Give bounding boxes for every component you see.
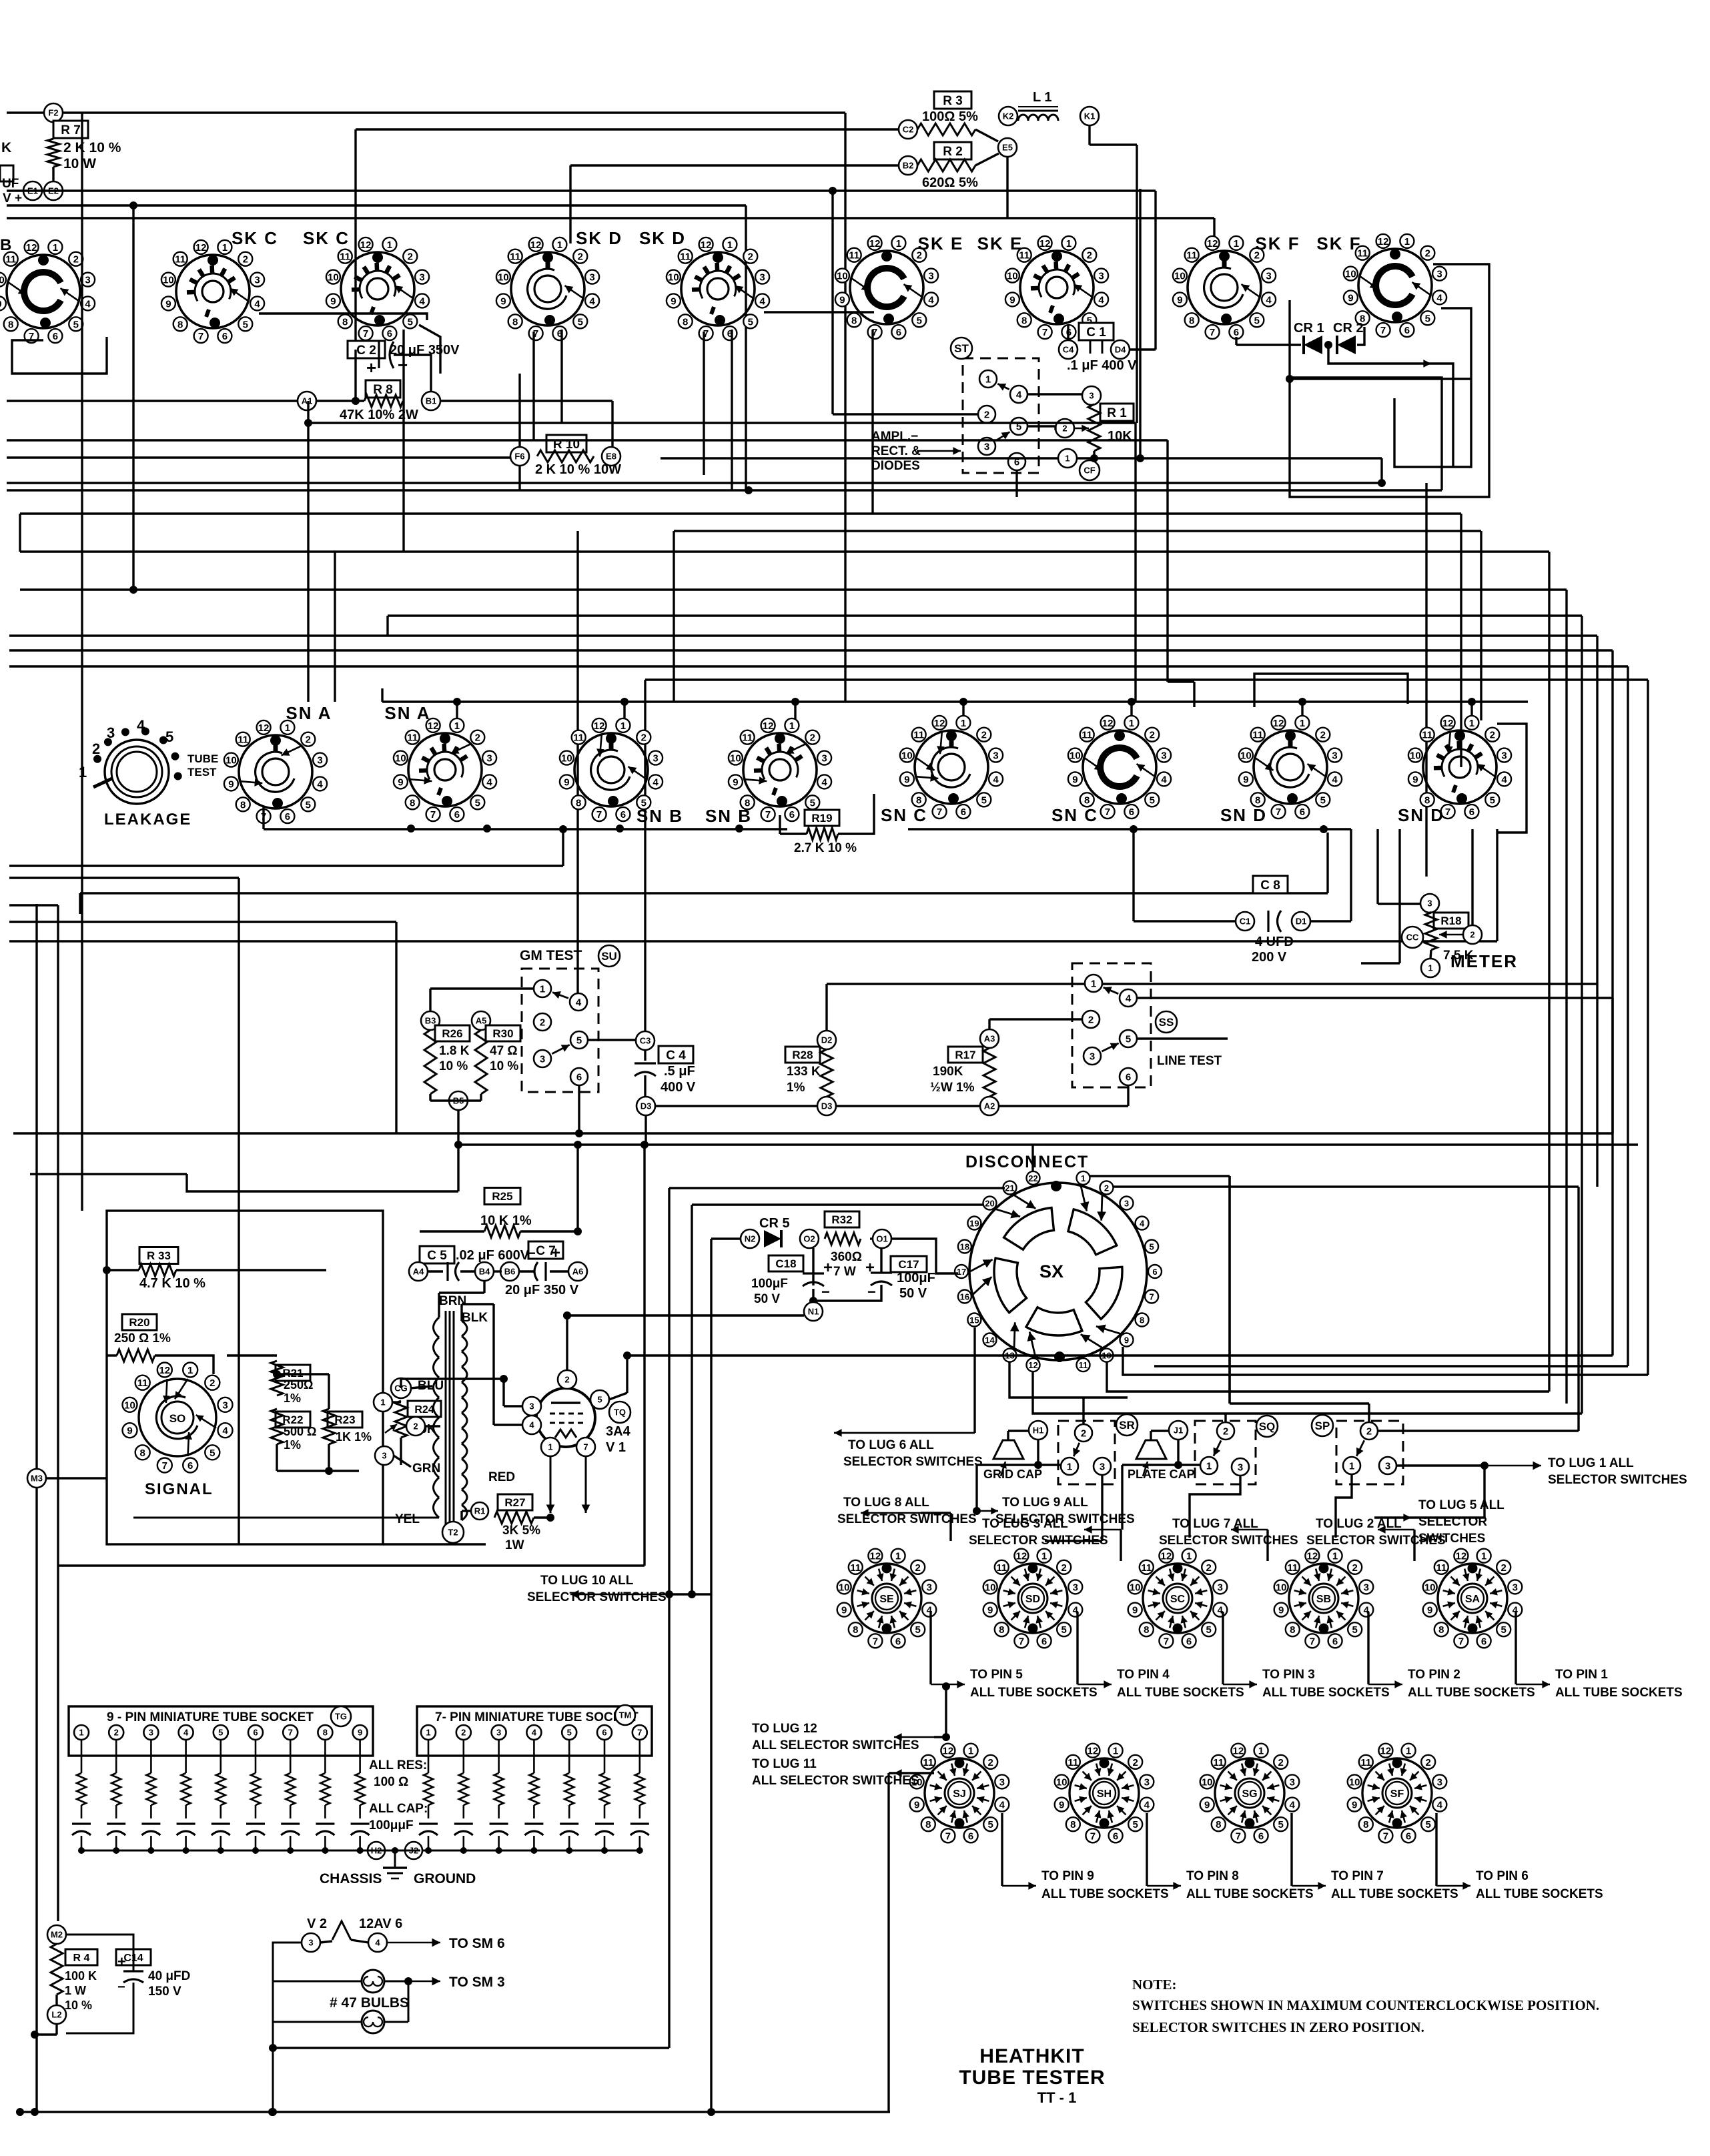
node v1p1	[541, 1438, 560, 1456]
svg-text:1%: 1%	[284, 1392, 301, 1405]
svg-text:9: 9	[1352, 1800, 1357, 1811]
node B1	[422, 392, 440, 410]
wire B2 feed	[570, 165, 899, 243]
resistor R23	[323, 1409, 372, 1444]
svg-text:5: 5	[73, 319, 79, 330]
svg-text:5: 5	[578, 316, 583, 328]
resistor R32	[825, 1211, 862, 1279]
svg-text:SR: SR	[1119, 1419, 1135, 1432]
svg-text:1: 1	[454, 720, 460, 732]
svg-text:10: 10	[1349, 1776, 1360, 1788]
svg-text:−: −	[117, 1980, 125, 1995]
svg-text:12: 12	[1233, 1746, 1244, 1757]
svg-text:SQ: SQ	[1259, 1420, 1276, 1433]
svg-text:O2: O2	[803, 1234, 815, 1244]
wire R10 tails	[520, 374, 753, 494]
svg-text:12: 12	[1161, 1551, 1172, 1562]
label YEL	[395, 1512, 420, 1526]
node N1	[804, 1302, 823, 1321]
svg-text:CC: CC	[1406, 933, 1419, 943]
svg-text:TEST: TEST	[187, 766, 217, 778]
wire sn bottom bus	[264, 807, 787, 833]
svg-text:+: +	[865, 1259, 875, 1277]
wire bottom bus	[16, 2108, 890, 2116]
node C1m	[1236, 912, 1254, 931]
node O2	[800, 1229, 819, 1248]
node B3	[421, 1011, 440, 1030]
svg-text:TT - 1: TT - 1	[1037, 2089, 1077, 2106]
svg-text:GRID CAP: GRID CAP	[983, 1468, 1042, 1481]
wire gm wires	[430, 989, 636, 1144]
svg-text:SN B: SN B	[636, 806, 683, 826]
wire bus y1716	[454, 1141, 1638, 1149]
svg-text:SIGNAL: SIGNAL	[145, 1480, 213, 1498]
svg-text:4: 4	[1098, 294, 1104, 306]
wire bus y827	[20, 550, 1549, 552]
wire bus y884	[20, 588, 1567, 590]
svg-text:7: 7	[1445, 806, 1450, 818]
svg-text:400 V: 400 V	[661, 1080, 696, 1095]
svg-text:10: 10	[1345, 269, 1356, 280]
svg-text:3: 3	[107, 724, 115, 741]
svg-text:12: 12	[763, 720, 774, 732]
svg-text:ALL SELECTOR SWITCHES: ALL SELECTOR SWITCHES	[752, 1774, 919, 1788]
wire bus y770	[20, 514, 1461, 767]
wire SKF2 y568	[1290, 378, 1471, 380]
svg-text:2: 2	[1104, 1183, 1109, 1193]
svg-text:100 K: 100 K	[65, 1969, 97, 1983]
label SIGNAL	[145, 1480, 213, 1498]
svg-text:3K 5%: 3K 5%	[502, 1524, 540, 1538]
svg-text:R 33: R 33	[147, 1249, 171, 1262]
label SK F	[1255, 233, 1300, 253]
svg-text:2: 2	[1320, 730, 1326, 741]
svg-text:ALL TUBE SOCKETS: ALL TUBE SOCKETS	[1262, 1686, 1390, 1700]
switch SU	[522, 945, 620, 1092]
node v2p4	[368, 1933, 387, 1952]
svg-text:4: 4	[759, 296, 765, 307]
wire SKB loop	[12, 337, 107, 374]
tube socket switch SN row #2	[560, 718, 663, 821]
svg-text:5: 5	[567, 1728, 572, 1738]
svg-text:10: 10	[0, 275, 5, 286]
svg-text:R 1: R 1	[1107, 406, 1127, 420]
wire ampl arrow	[917, 447, 961, 455]
svg-text:CF: CF	[1084, 466, 1095, 476]
svg-text:BLK: BLK	[462, 1311, 488, 1325]
svg-text:4: 4	[529, 1420, 534, 1430]
svg-text:5: 5	[1490, 794, 1495, 806]
svg-text:9: 9	[733, 776, 738, 788]
svg-text:11: 11	[1436, 1562, 1446, 1574]
wire rc bus	[81, 1850, 640, 1852]
svg-text:9: 9	[1278, 1605, 1284, 1616]
svg-text:A2: A2	[984, 1101, 995, 1111]
svg-text:2: 2	[1425, 248, 1430, 259]
tube socket switch SK E #5	[835, 236, 938, 339]
wire E5 down	[1006, 157, 1008, 218]
svg-text:SK E: SK E	[977, 233, 1023, 253]
resistor R20	[107, 1314, 213, 1374]
svg-text:10: 10	[226, 755, 237, 766]
svg-text:11: 11	[1422, 730, 1432, 741]
svg-text:2: 2	[564, 1375, 569, 1385]
svg-text:R 7: R 7	[61, 123, 81, 137]
svg-text:4: 4	[1501, 774, 1507, 785]
svg-text:H1: H1	[1033, 1426, 1044, 1436]
svg-text:4: 4	[1140, 1219, 1145, 1229]
svg-text:TG: TG	[335, 1712, 347, 1722]
svg-text:9: 9	[1204, 1800, 1210, 1811]
svg-text:LEAKAGE: LEAKAGE	[104, 811, 191, 829]
svg-text:1W: 1W	[505, 1538, 524, 1552]
svg-text:5: 5	[1061, 1624, 1067, 1636]
label 3A4 V1	[606, 1424, 631, 1455]
svg-text:2: 2	[92, 740, 100, 757]
svg-text:GROUND: GROUND	[414, 1871, 476, 1886]
diode CR5	[764, 1230, 781, 1247]
svg-text:TO PIN 7: TO PIN 7	[1331, 1869, 1384, 1883]
svg-text:.02 μF 600V: .02 μF 600V	[456, 1248, 530, 1263]
svg-text:4: 4	[183, 1728, 189, 1738]
wire c8 right	[1310, 829, 1351, 921]
svg-text:7: 7	[1105, 806, 1110, 818]
svg-text:2: 2	[1206, 1562, 1212, 1574]
ground chassis	[383, 1868, 407, 1878]
svg-text:1: 1	[285, 722, 290, 734]
svg-text:11: 11	[923, 1757, 933, 1768]
svg-text:2: 2	[209, 1378, 215, 1389]
svg-text:V 2: V 2	[307, 1917, 327, 1931]
svg-text:5: 5	[475, 797, 480, 808]
svg-text:R1: R1	[474, 1506, 486, 1516]
svg-text:A1: A1	[302, 396, 313, 406]
svg-text:7: 7	[288, 1728, 293, 1738]
label K fragment	[0, 140, 11, 254]
svg-text:9: 9	[839, 294, 845, 306]
svg-text:6: 6	[387, 328, 392, 340]
svg-text:K2: K2	[1003, 111, 1014, 121]
svg-text:YEL: YEL	[395, 1512, 420, 1526]
svg-text:UF: UF	[2, 177, 19, 191]
svg-text:HEATHKIT: HEATHKIT	[979, 2045, 1084, 2067]
svg-text:2: 2	[540, 1017, 545, 1028]
svg-text:1%: 1%	[284, 1438, 301, 1452]
tube socket switch SN row #1	[394, 718, 496, 821]
svg-text:D3: D3	[821, 1101, 833, 1111]
svg-text:7: 7	[1383, 1830, 1388, 1842]
wire right bundle v0	[1548, 552, 1550, 1392]
wire bus y1382	[9, 922, 396, 1133]
wire socket drops	[404, 330, 873, 552]
svg-text:C18: C18	[775, 1257, 796, 1270]
svg-text:7 W: 7 W	[833, 1265, 856, 1279]
svg-text:SK C: SK C	[232, 228, 278, 248]
svg-text:SELECTOR: SELECTOR	[1418, 1515, 1487, 1529]
svg-text:2: 2	[1087, 250, 1092, 261]
svg-text:TO PIN 5: TO PIN 5	[970, 1668, 1023, 1682]
wire sr feeds	[1084, 1176, 1369, 1424]
svg-text:8: 8	[916, 794, 921, 806]
svg-text:1: 1	[187, 1365, 193, 1376]
svg-text:1 W: 1 W	[65, 1984, 86, 1997]
svg-text:R25: R25	[492, 1190, 512, 1203]
svg-text:2.7 K 10 %: 2.7 K 10 %	[794, 841, 857, 855]
svg-text:10: 10	[163, 275, 174, 286]
svg-text:10 %: 10 %	[65, 1999, 92, 2012]
label SK C	[232, 228, 278, 248]
svg-text:7: 7	[363, 328, 368, 340]
wire m3 line	[46, 1477, 107, 1479]
svg-text:11: 11	[1287, 1562, 1298, 1574]
leakage switch	[79, 717, 218, 804]
svg-text:12: 12	[934, 718, 945, 729]
svg-text:8: 8	[1216, 1819, 1221, 1830]
wire bundle h999	[9, 665, 1628, 667]
svg-text:12: 12	[701, 239, 712, 251]
wire drop x200	[129, 205, 137, 594]
svg-text:10: 10	[498, 272, 509, 284]
svg-text:9: 9	[1412, 774, 1418, 785]
svg-text:6: 6	[53, 331, 58, 342]
svg-text:11: 11	[407, 732, 418, 744]
svg-text:12: 12	[1442, 718, 1454, 729]
svg-text:1: 1	[1349, 1460, 1354, 1472]
wire riser x1009	[673, 531, 675, 702]
svg-text:1: 1	[380, 1398, 385, 1408]
svg-text:TO LUG 8 ALL: TO LUG 8 ALL	[843, 1496, 929, 1510]
signal switch SO	[123, 1363, 233, 1473]
wire bus y634	[304, 419, 1136, 702]
capacitor C17	[865, 1256, 935, 1301]
resistor R25	[480, 1188, 532, 1238]
svg-text:10: 10	[328, 272, 339, 284]
svg-text:9: 9	[841, 1605, 847, 1616]
svg-text:5: 5	[1320, 794, 1326, 806]
svg-text:9: 9	[1124, 1335, 1129, 1345]
svg-text:11: 11	[1067, 1757, 1078, 1768]
svg-text:11: 11	[1082, 730, 1092, 741]
svg-text:47 Ω: 47 Ω	[490, 1044, 518, 1058]
svg-text:2: 2	[73, 254, 79, 265]
svg-text:1K 1%: 1K 1%	[336, 1430, 372, 1444]
svg-text:SK F: SK F	[1316, 233, 1361, 253]
svg-text:D4: D4	[1115, 345, 1126, 355]
resistor R22	[271, 1409, 316, 1452]
svg-text:C 1: C 1	[1086, 326, 1106, 340]
svg-text:10: 10	[1174, 271, 1186, 282]
svg-text:2: 2	[1061, 1562, 1067, 1574]
capacitor C14	[116, 1949, 190, 1999]
svg-text:1: 1	[1091, 978, 1096, 989]
svg-text:CR 1: CR 1	[1294, 321, 1324, 336]
tube socket switch SN row #5	[1068, 716, 1171, 819]
svg-text:SK D: SK D	[639, 228, 686, 248]
wire C1 wires	[1068, 326, 1156, 350]
svg-text:D1: D1	[1296, 917, 1307, 927]
svg-text:7: 7	[1042, 327, 1047, 338]
svg-text:RED: RED	[488, 1470, 515, 1484]
svg-text:5: 5	[218, 1728, 223, 1738]
label to lug5	[1374, 1498, 1505, 1546]
svg-text:5: 5	[243, 319, 248, 330]
selector switch SG	[1200, 1744, 1300, 1843]
svg-text:7: 7	[198, 331, 203, 342]
svg-text:1: 1	[1406, 1746, 1411, 1757]
svg-text:SK D: SK D	[576, 228, 622, 248]
svg-text:A4: A4	[413, 1267, 424, 1277]
wire t2 wires	[133, 1281, 494, 1520]
node A2	[980, 1097, 999, 1115]
svg-text:R30: R30	[492, 1027, 513, 1040]
svg-text:TM: TM	[619, 1710, 632, 1720]
svg-text:9: 9	[1132, 1605, 1138, 1616]
svg-text:9: 9	[987, 1605, 993, 1616]
node E8	[602, 447, 620, 466]
svg-text:SC: SC	[1170, 1594, 1186, 1605]
label to lug8	[837, 1496, 977, 1541]
resistor R27	[494, 1494, 540, 1552]
svg-text:B4: B4	[479, 1267, 490, 1277]
label RED	[488, 1470, 515, 1484]
title TT-1	[1037, 2089, 1077, 2106]
wire bus y2347	[58, 1145, 645, 1566]
svg-text:2: 2	[988, 1757, 993, 1768]
svg-text:ALL CAP:: ALL CAP:	[369, 1802, 428, 1816]
svg-text:1: 1	[1258, 1746, 1264, 1757]
svg-text:ALL TUBE SOCKETS: ALL TUBE SOCKETS	[1331, 1887, 1458, 1901]
svg-text:3: 3	[254, 275, 260, 286]
svg-text:SELECTOR SWITCHES: SELECTOR SWITCHES	[843, 1455, 983, 1469]
node F2	[44, 103, 63, 122]
svg-text:1: 1	[620, 720, 626, 732]
svg-text:5: 5	[597, 1395, 602, 1405]
svg-text:3: 3	[496, 1728, 501, 1738]
label BLK	[462, 1311, 488, 1325]
label SK D	[576, 228, 622, 248]
svg-text:C 4: C 4	[666, 1049, 686, 1063]
svg-text:O1: O1	[876, 1234, 887, 1244]
wire bulb1	[273, 1977, 440, 1986]
node v1p2	[558, 1370, 576, 1389]
node D3a	[636, 1097, 655, 1115]
network 9-pin RC	[72, 1725, 370, 1854]
selector switch SB	[1274, 1549, 1374, 1648]
svg-text:8: 8	[342, 316, 348, 328]
svg-text:3: 3	[1364, 1582, 1369, 1593]
svg-text:9: 9	[398, 776, 403, 788]
wire r4 c14 wires	[31, 1935, 133, 2116]
svg-text:R32: R32	[831, 1213, 852, 1226]
node A1	[298, 392, 316, 410]
svg-text:5: 5	[1352, 1624, 1358, 1636]
svg-text:1: 1	[1234, 238, 1239, 249]
svg-text:8: 8	[1290, 1624, 1295, 1636]
svg-text:5: 5	[748, 316, 753, 328]
tube socket switch SK E #6	[1005, 236, 1108, 339]
svg-text:6: 6	[961, 806, 966, 818]
svg-text:4 UFD: 4 UFD	[1255, 935, 1294, 949]
node CG	[391, 1378, 411, 1398]
svg-text:6: 6	[454, 809, 460, 821]
capacitor C4	[634, 1046, 696, 1095]
svg-text:12: 12	[1088, 1746, 1099, 1757]
wire meter2 arrow	[1439, 829, 1472, 939]
svg-text:SU: SU	[601, 950, 617, 963]
label SK C	[303, 228, 350, 248]
svg-text:2: 2	[1470, 930, 1474, 940]
svg-text:SWITCHES SHOWN IN MAXIMUM COUN: SWITCHES SHOWN IN MAXIMUM COUNTERCLOCKWI…	[1132, 1997, 1599, 2013]
svg-text:10: 10	[1130, 1582, 1141, 1593]
signal box	[107, 1211, 486, 1544]
svg-text:15: 15	[969, 1315, 979, 1325]
tube socket switch SN row #3	[729, 718, 831, 821]
svg-text:TO LUG 1 ALL: TO LUG 1 ALL	[1548, 1456, 1634, 1470]
svg-text:C17: C17	[898, 1258, 919, 1271]
svg-text:ALL TUBE SOCKETS: ALL TUBE SOCKETS	[1555, 1686, 1683, 1700]
svg-text:TO LUG 3 ALL: TO LUG 3 ALL	[982, 1517, 1068, 1531]
svg-text:3: 3	[1218, 1582, 1223, 1593]
wire R3-E5	[975, 129, 998, 141]
svg-text:7: 7	[583, 1442, 588, 1452]
wire d2 up	[827, 984, 1597, 1031]
svg-text:12: 12	[1039, 238, 1051, 249]
svg-text:6: 6	[1481, 1636, 1486, 1647]
svg-text:2: 2	[1081, 1428, 1086, 1439]
svg-text:1: 1	[1428, 963, 1432, 973]
network 7-pin RC	[419, 1725, 649, 1854]
label SK D	[639, 228, 686, 248]
wire lug12 arrow	[894, 1682, 950, 1741]
svg-text:7: 7	[596, 809, 602, 821]
svg-text:R18: R18	[1440, 915, 1461, 927]
svg-text:3: 3	[222, 1400, 228, 1411]
svg-text:6: 6	[896, 327, 901, 338]
capacitor C2	[348, 341, 460, 401]
wire bus y1411	[9, 829, 1497, 941]
svg-text:SB: SB	[1316, 1594, 1331, 1605]
svg-text:1: 1	[1404, 236, 1410, 247]
node B2	[899, 156, 917, 175]
wire sn d loop right	[1497, 724, 1527, 833]
svg-text:3: 3	[1073, 1582, 1078, 1593]
svg-text:SN A: SN A	[384, 703, 430, 723]
svg-text:250 Ω 1%: 250 Ω 1%	[114, 1331, 171, 1345]
wire v2 wires	[269, 1939, 440, 2116]
svg-text:4: 4	[317, 778, 323, 790]
svg-text:TQ: TQ	[614, 1408, 626, 1418]
svg-text:K: K	[1, 140, 11, 155]
resistor R21	[271, 1361, 313, 1405]
svg-text:2: 2	[306, 734, 311, 746]
svg-text:10 %: 10 %	[439, 1059, 468, 1073]
svg-text:8: 8	[1144, 1624, 1149, 1636]
svg-text:4: 4	[1144, 1800, 1150, 1811]
wire drop x123	[81, 113, 83, 1211]
svg-text:4: 4	[1332, 774, 1338, 785]
svg-text:2: 2	[408, 251, 413, 263]
svg-text:11: 11	[1186, 250, 1197, 261]
svg-text:8: 8	[8, 319, 13, 330]
svg-text:SK F: SK F	[1255, 233, 1300, 253]
wire c8 left	[1134, 829, 1236, 921]
svg-text:6: 6	[1300, 806, 1305, 818]
svg-text:6: 6	[285, 811, 290, 823]
svg-text:4: 4	[589, 296, 595, 307]
svg-text:4: 4	[1266, 294, 1272, 306]
svg-text:3: 3	[1501, 750, 1507, 762]
label SN B	[705, 806, 752, 826]
